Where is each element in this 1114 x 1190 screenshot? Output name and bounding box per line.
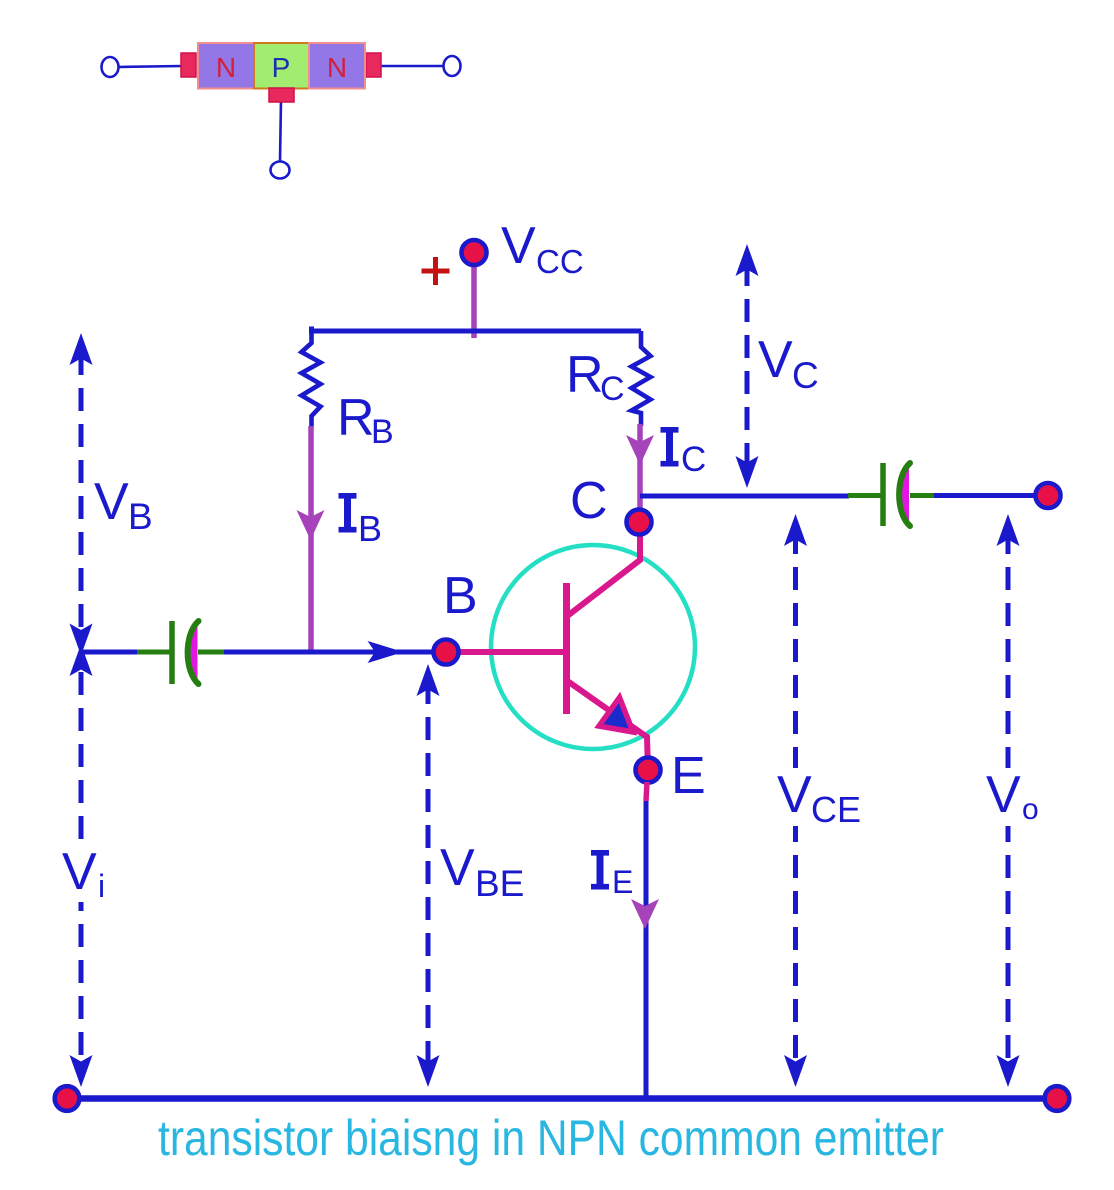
svg-text:CE: CE (811, 789, 861, 830)
emitter lead (566, 680, 648, 770)
wire IB (purple) (308, 426, 314, 652)
input wire to base node (224, 650, 446, 655)
svg-text:i: i (98, 868, 105, 904)
label VCE (772, 768, 860, 826)
arrow VBE (dashed, double-headed) (426, 681, 431, 1078)
arrow VC (dashed, double-headed) (745, 263, 750, 470)
wire collector (purple) (637, 424, 643, 522)
collector lead (566, 522, 640, 617)
rail left dot (55, 1086, 80, 1111)
svg-text:C: C (570, 472, 608, 530)
node C dot (627, 510, 652, 535)
N region left (198, 43, 254, 89)
top rail wire (312, 327, 642, 332)
svg-text:C: C (681, 440, 706, 479)
resistor RB (302, 331, 321, 428)
capacitor C2 lead left (green) (848, 493, 881, 498)
capacitor C1 flat plate (169, 621, 175, 684)
svg-text:B: B (358, 508, 382, 549)
svg-text:B: B (371, 413, 394, 451)
base lead (pink) (446, 649, 564, 655)
output terminal dot (1036, 483, 1061, 508)
capacitor C1 curved plate fill (magenta) (189, 623, 198, 682)
transistor bar (563, 583, 570, 714)
svg-text:BE: BE (475, 863, 524, 904)
emitter stub below E (pink) (646, 782, 647, 801)
svg-text:C: C (792, 355, 819, 396)
label IE (591, 853, 609, 887)
label Vi (58, 846, 114, 902)
transistor circle (cyan) (491, 545, 695, 749)
left terminal circle (102, 57, 119, 77)
node B dot (434, 640, 459, 665)
svg-text:V: V (501, 217, 536, 275)
capacitor C1 curved plate (green) (188, 621, 199, 684)
svg-text:V: V (758, 331, 793, 389)
svg-text:V: V (62, 843, 97, 901)
arrow VB (dashed, double-headed) (79, 352, 84, 636)
svg-text:R: R (337, 389, 375, 447)
bottom rail wire (67, 1095, 1057, 1102)
svg-text:V: V (986, 766, 1021, 824)
svg-text:transistor biaisng in NPN comm: transistor biaisng in NPN common emitter (158, 1110, 944, 1166)
node E dot (636, 758, 661, 783)
capacitor C2 curved plate fill (magenta) (900, 465, 909, 524)
capacitor C2 lead right (green) (910, 493, 934, 498)
svg-text:V: V (440, 839, 475, 897)
input wire left segment (81, 650, 139, 655)
plus sign (422, 257, 450, 285)
Vcc wire (purple) (471, 262, 477, 338)
svg-text:o: o (1022, 793, 1039, 826)
svg-text:N: N (216, 52, 236, 83)
arrow Vi (dashed, double-headed) (79, 672, 84, 1078)
label IC (661, 430, 679, 464)
arrow Vo (dashed, double-headed) (1006, 531, 1011, 1078)
signal arrow on input wire (368, 641, 404, 663)
emitter arrowhead (blue) (599, 698, 633, 733)
current arrow IB (297, 510, 325, 540)
N region right (309, 43, 365, 89)
resistor RC (632, 331, 651, 426)
capacitor C2 flat plate (880, 463, 886, 526)
emitter wire down (blue) (644, 801, 649, 1098)
svg-text:E: E (612, 864, 633, 900)
capacitor C2 curved plate (green) (899, 463, 910, 526)
arrow VCE (dashed, double-headed) (793, 531, 798, 1078)
output wire left segment (640, 494, 849, 499)
svg-text:CC: CC (536, 243, 584, 280)
svg-text:P: P (272, 52, 291, 83)
right collector contact (366, 53, 381, 77)
left emitter contact (181, 53, 196, 77)
capacitor C1 lead right (green) (198, 650, 224, 655)
Vcc terminal dot (462, 240, 487, 265)
rail right dot (1045, 1086, 1070, 1111)
bottom terminal circle (271, 162, 290, 179)
capacitor C1 lead left (green) (137, 650, 170, 655)
current arrow IE (631, 899, 659, 929)
current arrow IC (626, 435, 654, 465)
svg-text:R: R (566, 346, 604, 404)
output wire to terminal (934, 493, 1048, 498)
label Vo (982, 768, 1046, 826)
P region (254, 43, 309, 89)
right terminal circle (444, 56, 461, 76)
wire right contact to right terminal (380, 65, 444, 68)
base contact under P (269, 88, 294, 102)
wire base contact to bottom terminal (280, 100, 281, 161)
svg-text:V: V (94, 473, 129, 531)
svg-text:E: E (671, 747, 706, 805)
svg-text:V: V (777, 766, 812, 824)
wire left terminal to left contact (117, 66, 182, 67)
label IB (339, 496, 357, 530)
svg-text:B: B (443, 567, 478, 625)
svg-text:B: B (128, 496, 153, 537)
svg-text:C: C (600, 370, 625, 408)
svg-text:N: N (327, 52, 347, 83)
